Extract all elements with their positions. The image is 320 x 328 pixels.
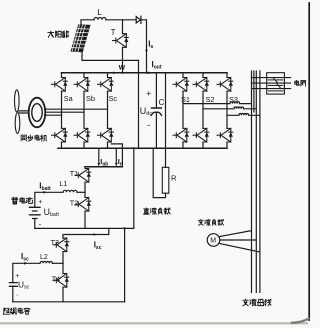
inductor L coil [94, 18, 106, 20]
IGBT S2 top [193, 78, 209, 92]
generator inner ring [32, 104, 42, 122]
supercap plates [9, 283, 17, 287]
svg-text:.: . [16, 289, 18, 298]
arrow Iout on top bus [148, 72, 152, 75]
svg-text:R: R [171, 173, 177, 182]
transformer line 1 [252, 77, 291, 79]
IGBT S1 top [173, 78, 189, 92]
text labels (latin) [15, 7, 238, 298]
transformer box [267, 73, 285, 94]
arrow Isc2 [94, 233, 98, 236]
rectifier leg a [61, 73, 63, 148]
arrow on top bus (left) [113, 72, 117, 75]
svg-text:C: C [159, 98, 165, 107]
current branch In [115, 148, 117, 163]
svg-text:Sa: Sa [64, 94, 74, 103]
motor feed line 3 [219, 243, 260, 252]
battery top wire [35, 192, 63, 207]
T4 legs [62, 263, 64, 302]
svg-text:w: w [118, 62, 126, 71]
AC bus line 3 [259, 71, 261, 292]
label 太阳能 (solar) [48, 31, 54, 37]
svg-text:T4: T4 [52, 274, 60, 283]
svg-text:L: L [97, 7, 102, 17]
R load top wire [165, 73, 167, 168]
inverter phase line 3 with filter inductor [227, 114, 260, 116]
IGBT Sa top [52, 78, 68, 92]
svg-text:L1: L1 [60, 181, 68, 188]
label 交流负载 (AC load) [198, 219, 203, 225]
inverter leg 2 [202, 73, 204, 148]
motor feed line 2 [220, 239, 256, 241]
transformer winding segment 1 [268, 79, 283, 81]
transistor T1 [75, 169, 91, 183]
solar panel (PV array) [69, 25, 90, 52]
page border right [308, 3, 310, 320]
AC load motor circle [207, 234, 220, 247]
supercap bottom lead [12, 286, 14, 302]
wire: solar neg drop to bottom bus [138, 60, 140, 148]
inverter phase line 1 with filter inductor [183, 102, 252, 104]
motor feed line 1 [219, 231, 251, 237]
machine phase line 1 [45, 108, 108, 110]
turbine blade bottom [15, 113, 20, 134]
IGBT S3 top [217, 78, 233, 92]
T2 leg [84, 192, 86, 228]
IGBT S2 bottom [193, 128, 209, 142]
AC bus line 2 [255, 71, 257, 292]
transformer winding segment 3 [268, 90, 283, 92]
T3-node wire [62, 252, 64, 264]
page border bottom shadow [0, 322, 307, 324]
inverter leg 1 [182, 73, 184, 148]
transformer winding segment 2 [268, 84, 283, 86]
IGBT Sb top [74, 78, 90, 92]
wire: solar top lead [81, 20, 94, 25]
capacitor C wire bottom [155, 112, 157, 148]
svg-text:T1: T1 [70, 169, 78, 178]
svg-text:+: + [146, 88, 151, 98]
junction dot rail-supercap drop [124, 227, 126, 229]
svg-text:S1: S1 [181, 95, 190, 104]
battery bottom wire [34, 219, 36, 229]
transformer winding jog 2 [276, 83, 281, 89]
transformer line 3 [252, 88, 291, 90]
machine phase line 3 [45, 114, 62, 116]
svg-text:M: M [210, 238, 216, 245]
transformer line 2 [252, 82, 291, 84]
IGBT S3 bottom [217, 128, 233, 142]
machine phase line 2 [45, 111, 84, 113]
transistor T [113, 34, 129, 48]
wire A battery converter top [85, 166, 122, 168]
supercap output wire (T3 top) [63, 228, 109, 238]
wire: rail down to supercap bottom [124, 228, 126, 301]
battery plates [30, 207, 41, 218]
R bottom loop [153, 148, 165, 197]
T1-node wire [84, 182, 86, 192]
label 直流负载 (DC load) [143, 208, 149, 214]
wire L2 to node [52, 262, 63, 264]
turbine blade top [14, 90, 19, 112]
transistor T emitter wire to node w [122, 47, 124, 73]
transistor T2 [75, 198, 91, 212]
IGBT Sc bottom [98, 128, 114, 142]
node w junction [121, 72, 123, 74]
supercap top wire [13, 263, 40, 282]
rectifier leg c [107, 73, 109, 148]
transformer winding jog 1 [273, 78, 278, 84]
svg-text:Sc: Sc [109, 94, 118, 103]
capacitor C link wire top [155, 73, 157, 108]
rectifier leg b [83, 73, 85, 148]
transistor T4 [53, 274, 69, 288]
svg-text:-: - [39, 220, 42, 229]
diode D (solar boost) [136, 17, 140, 23]
IGBT S1 bottom [173, 128, 189, 142]
T1 leg [84, 167, 86, 169]
generator outer ring [29, 98, 46, 128]
wire: diode to Is drop [141, 20, 147, 73]
wire: L to diode [106, 19, 136, 21]
inverter phase line 2 with filter inductor [203, 107, 256, 109]
IGBT Sa bottom [52, 128, 68, 142]
wire: rectifier neg jog to wire A [111, 144, 122, 167]
svg-text:S3: S3 [229, 95, 238, 104]
AC bus stub line [253, 71, 255, 112]
label 蓄电池 (battery) [12, 197, 18, 204]
DC bus positive (top rail) [62, 72, 228, 74]
transistor T collector wire [122, 20, 124, 34]
inductor L1 [63, 190, 77, 192]
wire: solar negative to rail [82, 52, 139, 61]
svg-text:Sb: Sb [86, 94, 95, 103]
label 同步电机 (synchronous machine) [21, 135, 26, 141]
resistor R [162, 167, 169, 193]
wire L1 to node [77, 191, 85, 193]
svg-text:+: + [38, 199, 42, 206]
svg-text:S2: S2 [206, 95, 215, 104]
IGBT Sc top [98, 78, 114, 92]
supercap bottom wire [13, 301, 125, 303]
shaft [19, 111, 29, 113]
DC bus negative (bottom rail) [58, 147, 227, 149]
svg-text:-: - [147, 120, 150, 130]
label 电网 (grid) [295, 80, 300, 85]
junction dot bus2-solar neg [137, 147, 139, 149]
label 交流母线 (AC bus) [243, 299, 249, 306]
battery negative rail [35, 227, 134, 229]
inverter leg 3 [226, 73, 228, 148]
arrow Isc [24, 262, 28, 265]
wire: bus2 down to battery rail [133, 148, 135, 228]
inductor L2 [40, 261, 52, 263]
junction dot bus2-battery drop [133, 147, 135, 149]
node: Is landing junction [145, 72, 147, 74]
arrow Is (down) [145, 50, 148, 54]
AC bus line 1 [251, 71, 253, 292]
arrow Ibatt [43, 191, 47, 194]
svg-text:T3: T3 [51, 238, 59, 247]
page corner shade [292, 319, 309, 323]
svg-text:L2: L2 [40, 254, 48, 261]
capacitor C plates (polarized) [151, 108, 161, 115]
current branch Iab [98, 148, 100, 163]
IGBT Sb bottom [74, 128, 90, 142]
label 超级电容 (supercapacitor) [3, 308, 9, 314]
svg-text:T: T [111, 28, 116, 37]
transistor T3 [53, 238, 69, 252]
svg-text:T2: T2 [70, 198, 78, 207]
